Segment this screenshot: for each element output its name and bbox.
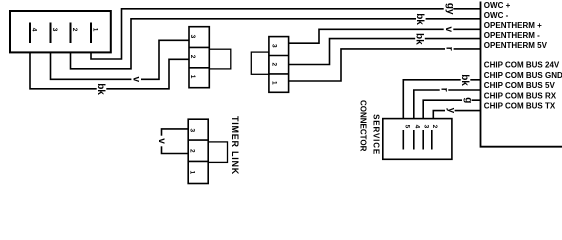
X4 pin 4: [413, 125, 420, 150]
svg-text:OWC +: OWC +: [484, 1, 511, 10]
svg-text:2: 2: [271, 63, 278, 67]
wire label bk: [459, 73, 470, 86]
wire OWC+ (X1 pin1 to boiler OWC+): [91, 9, 481, 59]
wire v (X1 pin3 to connector X2 pin3): [51, 40, 190, 79]
X4 pin 3: [423, 125, 430, 150]
svg-text:OPENTHERM 5V: OPENTHERM 5V: [484, 41, 548, 50]
X1 pin 1: [91, 23, 98, 44]
svg-text:CHIP COM BUS TX: CHIP COM BUS TX: [484, 101, 556, 110]
wire label bk: [95, 82, 106, 95]
X4 pin 2: [431, 125, 438, 150]
svg-text:v: v: [156, 138, 167, 144]
svg-text:1: 1: [189, 75, 196, 79]
svg-text:1: 1: [189, 171, 196, 175]
wire label r: [443, 44, 454, 53]
wire OPENTHERM- (X3 pin2 to boiler): [289, 39, 481, 65]
svg-text:4: 4: [30, 28, 37, 32]
connector X2 (OpenTherm plug, 3-pin): [189, 27, 231, 88]
svg-text:TIMER LINK: TIMER LINK: [230, 116, 240, 175]
wire label gy: [444, 2, 456, 15]
connector X3 (OpenTherm socket, 3-pin): [251, 37, 288, 93]
svg-text:y: y: [446, 108, 457, 114]
wire label r: [438, 85, 449, 94]
svg-text:CHIP COM BUS RX: CHIP COM BUS RX: [484, 92, 557, 101]
svg-text:2: 2: [189, 55, 196, 59]
svg-text:2: 2: [189, 149, 196, 153]
X1 pin 2: [71, 23, 78, 44]
connector X1 (4-pin header, top-left): [10, 11, 111, 52]
svg-text:bk: bk: [459, 74, 470, 86]
svg-text:gy: gy: [444, 3, 455, 15]
svg-text:CONNECTOR: CONNECTOR: [359, 100, 368, 152]
wire label v: [131, 74, 142, 85]
wire label bk: [414, 12, 425, 25]
connector X5 TIMER LINK (3-pin): [188, 119, 227, 183]
svg-text:5: 5: [403, 125, 410, 129]
svg-text:OWC -: OWC -: [484, 11, 509, 20]
svg-text:bk: bk: [413, 33, 424, 45]
wire label bk: [413, 32, 424, 45]
wire label v: [443, 24, 454, 35]
svg-text:4: 4: [413, 125, 420, 129]
wire OWC- (X1 pin2 to boiler OWC-): [71, 19, 481, 69]
svg-text:1: 1: [271, 81, 278, 85]
svg-text:OPENTHERM -: OPENTHERM -: [484, 31, 540, 40]
svg-text:r: r: [438, 88, 449, 92]
wire CHIP COM BUS RX (boiler to service connector pin3): [423, 100, 480, 118]
svg-text:SERVICE: SERVICE: [371, 114, 380, 155]
svg-text:3: 3: [189, 35, 196, 39]
svg-text:1: 1: [91, 28, 98, 32]
wire CHIP COM BUS 5V (boiler to service connector pin4): [414, 90, 481, 119]
wire bk (X1 pin4 to connector X2 pin2): [30, 52, 189, 88]
X1 pin 3: [51, 23, 58, 44]
boiler terminal block (right box): [481, 2, 562, 147]
wire CHIP COM BUS TX (boiler to service connector pin2): [433, 111, 480, 119]
wire jumper X5 pin3 to pin2: [162, 129, 189, 154]
wire label y: [445, 106, 457, 116]
X1 pin 4: [30, 23, 37, 44]
svg-text:2: 2: [71, 28, 78, 32]
wire CHIP COM BUS GND (boiler to service connector pin5): [403, 80, 480, 119]
svg-text:2: 2: [431, 125, 438, 129]
svg-text:3: 3: [423, 125, 430, 129]
svg-text:bk: bk: [414, 13, 425, 25]
svg-text:r: r: [443, 47, 454, 51]
svg-text:3: 3: [271, 44, 278, 48]
svg-text:bk: bk: [95, 83, 106, 95]
svg-text:v: v: [443, 27, 454, 33]
svg-text:3: 3: [51, 28, 58, 32]
service connector X4: [383, 119, 452, 160]
svg-text:CHIP COM BUS GND: CHIP COM BUS GND: [484, 71, 562, 80]
svg-text:3: 3: [189, 129, 196, 133]
svg-text:OPENTHERM +: OPENTHERM +: [484, 21, 542, 30]
svg-text:g: g: [462, 97, 473, 103]
wire label v: [156, 136, 167, 147]
X4 pin 5: [403, 125, 410, 150]
svg-text:CHIP COM BUS 5V: CHIP COM BUS 5V: [484, 81, 556, 90]
svg-text:CHIP COM BUS 24V: CHIP COM BUS 24V: [484, 61, 560, 70]
wire OPENTHERM+ (X3 pin3 to boiler): [289, 29, 481, 43]
svg-text:v: v: [131, 77, 142, 83]
wire label g: [462, 95, 473, 105]
label SERVICE CONNECTOR: [359, 100, 381, 155]
wire OPENTHERM 5V (X3 pin1 to boiler): [289, 49, 481, 81]
